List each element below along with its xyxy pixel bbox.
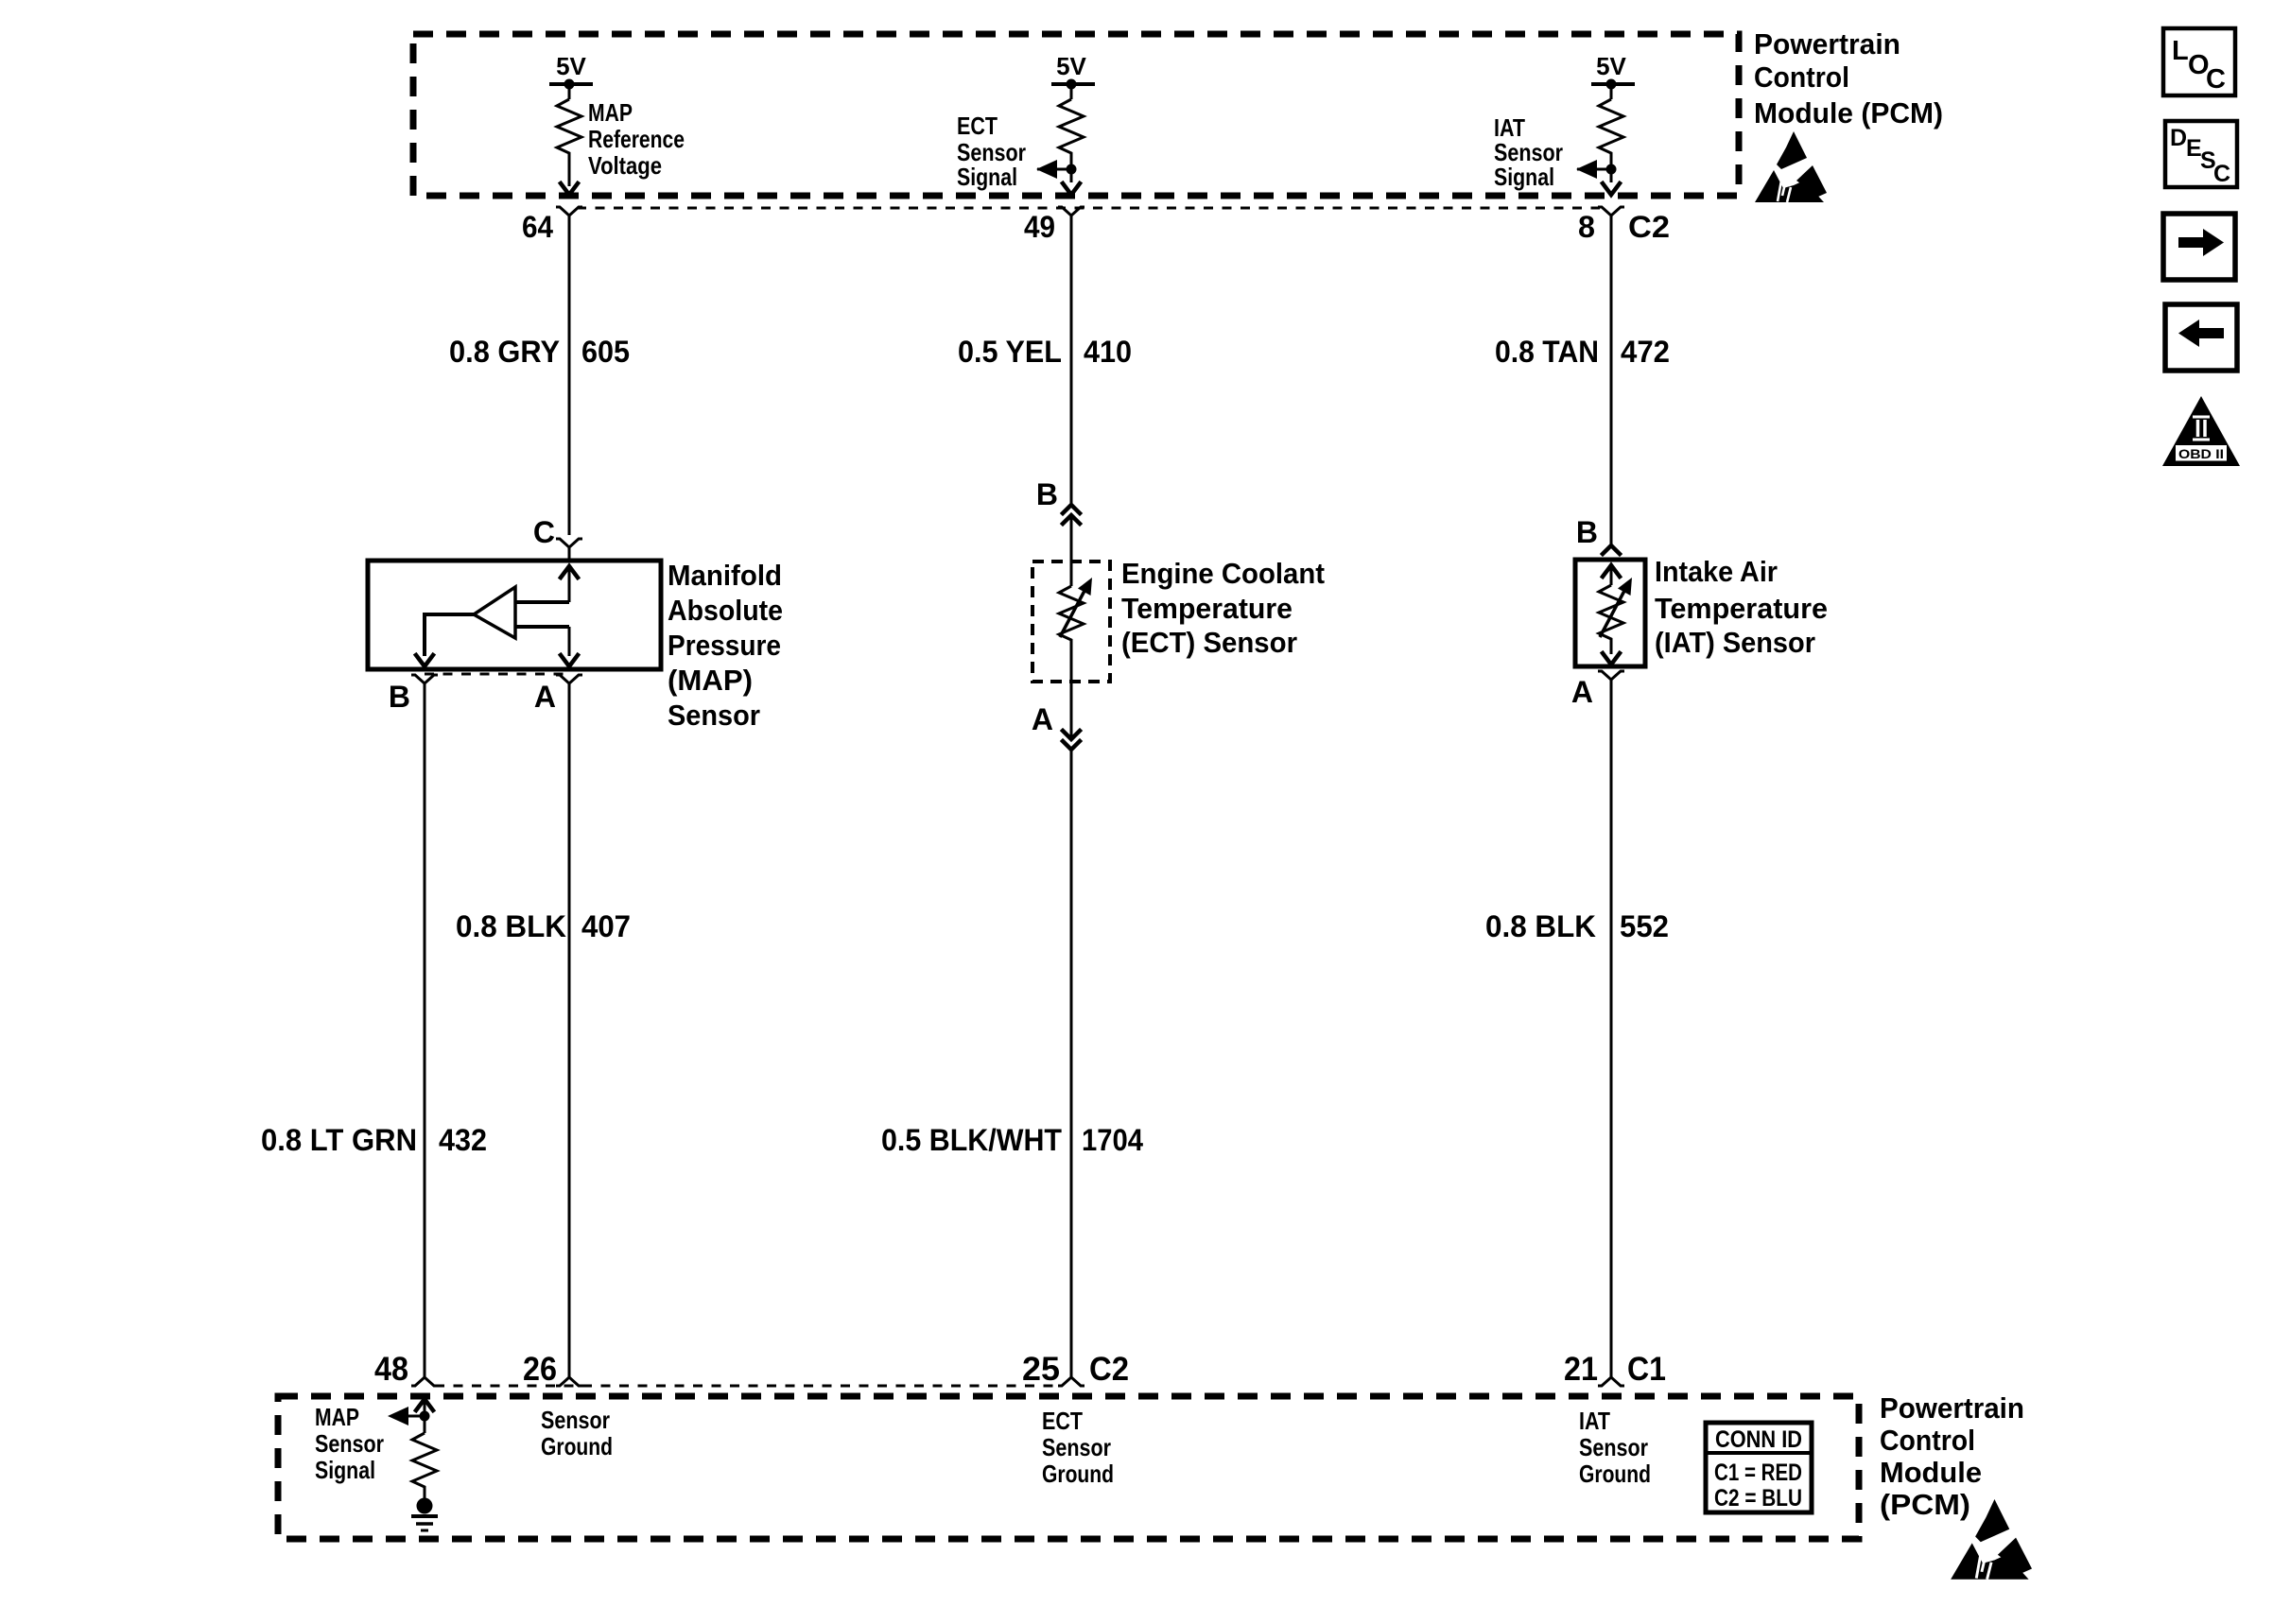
svg-text:Module (PCM): Module (PCM) <box>1754 96 1943 130</box>
svg-text:L: L <box>2172 36 2189 66</box>
svg-text:0.8 TAN: 0.8 TAN <box>1495 335 1599 369</box>
svg-text:Control: Control <box>1880 1424 1975 1457</box>
arrow up from node to pin 48 <box>416 1399 433 1410</box>
ground <box>411 1498 438 1531</box>
svg-text:407: 407 <box>581 909 631 943</box>
svg-text:Sensor: Sensor <box>1042 1433 1111 1461</box>
svg-text:OBD II: OBD II <box>2178 446 2224 461</box>
MAP pin C connector <box>556 539 582 547</box>
ESD symbol top <box>1755 131 1827 202</box>
svg-text:CONN ID: CONN ID <box>1715 1426 1802 1453</box>
svg-text:64: 64 <box>522 210 553 244</box>
node ECT signal <box>1067 164 1077 175</box>
resistor ECT pull-up <box>1059 99 1084 182</box>
svg-text:Sensor: Sensor <box>1579 1433 1648 1461</box>
svg-text:Sensor: Sensor <box>315 1429 384 1458</box>
svg-text:Module: Module <box>1880 1456 1982 1489</box>
svg-text:5V: 5V <box>556 52 586 80</box>
svg-text:B: B <box>389 680 410 714</box>
svg-text:410: 410 <box>1084 335 1132 369</box>
svg-text:Powertrain: Powertrain <box>1880 1391 2024 1425</box>
arrow down to B <box>416 655 433 666</box>
svg-text:(MAP): (MAP) <box>668 664 753 697</box>
resistor MAP internal <box>412 1433 437 1499</box>
pin 26 connector <box>556 1377 582 1386</box>
ECT sensor dashed box <box>1032 561 1110 682</box>
IAT pin B connector <box>1603 545 1620 554</box>
DESC icon <box>2165 121 2237 187</box>
svg-text:B: B <box>1036 477 1058 511</box>
left arrow icon <box>2165 304 2237 371</box>
svg-text:MAP: MAP <box>588 98 633 127</box>
ESD symbol bottom <box>1951 1499 2032 1580</box>
svg-text:Pressure: Pressure <box>668 629 781 662</box>
svg-text:C: C <box>533 515 555 549</box>
ECT pin A connector <box>1070 682 1073 739</box>
IAT sensor box <box>1575 560 1645 666</box>
svg-text:Reference: Reference <box>588 125 685 153</box>
wire 552 BLK <box>1610 691 1613 1378</box>
CONN ID table <box>1706 1423 1812 1512</box>
svg-text:Intake Air: Intake Air <box>1655 555 1778 588</box>
svg-text:26: 26 <box>523 1351 557 1388</box>
svg-text:D: D <box>2170 125 2187 151</box>
IAT sensor name <box>1655 555 1828 659</box>
wire 407 BLK <box>568 695 571 1378</box>
ECT Sensor Ground label <box>1042 1407 1114 1488</box>
wire 410 YEL <box>1070 216 1073 504</box>
IAT sensor signal arrow <box>1577 168 1611 171</box>
svg-text:C: C <box>2213 161 2230 187</box>
arrow up inside IAT box <box>1603 565 1620 577</box>
svg-text:472: 472 <box>1621 335 1670 369</box>
wire op-amp output <box>425 614 474 656</box>
pin 49 connector <box>1058 207 1084 216</box>
svg-text:C1: C1 <box>1627 1351 1666 1388</box>
OBD II icon <box>2162 396 2240 466</box>
svg-text:Signal: Signal <box>1494 163 1554 191</box>
right arrow icon <box>2163 214 2235 280</box>
arrow down to box edge <box>561 183 578 195</box>
Sensor Ground label <box>541 1406 613 1460</box>
resistor MAP Reference Voltage <box>557 99 581 186</box>
svg-text:432: 432 <box>439 1123 487 1157</box>
MAP Sensor Signal label <box>315 1403 384 1484</box>
MAP Reference Voltage label <box>588 98 685 180</box>
svg-text:0.8 BLK: 0.8 BLK <box>456 909 566 943</box>
op-amp U MAP <box>474 587 515 638</box>
svg-text:MAP: MAP <box>315 1403 359 1431</box>
IAT Sensor Ground label <box>1579 1407 1651 1488</box>
svg-text:Temperature: Temperature <box>1121 592 1293 625</box>
svg-text:Sensor: Sensor <box>668 699 760 732</box>
pin 64 connector <box>556 207 582 216</box>
wire op-amp inputs <box>515 600 569 604</box>
svg-text:5V: 5V <box>1056 52 1086 80</box>
ECT pin B connector <box>1063 505 1080 513</box>
svg-text:ECT: ECT <box>1042 1407 1083 1435</box>
ECT sensor name <box>1121 557 1325 659</box>
svg-text:0.8 LT GRN: 0.8 LT GRN <box>261 1123 417 1157</box>
svg-text:Sensor: Sensor <box>541 1406 610 1434</box>
svg-text:5V: 5V <box>1596 52 1626 80</box>
node MAP signal <box>420 1411 430 1422</box>
svg-text:0.5 BLK/WHT: 0.5 BLK/WHT <box>881 1123 1062 1157</box>
MAP pin B connector <box>411 675 438 683</box>
svg-text:Manifold: Manifold <box>668 559 782 592</box>
svg-text:Voltage: Voltage <box>588 151 662 180</box>
5V supply ECT <box>1051 52 1095 99</box>
svg-text:(ECT) Sensor: (ECT) Sensor <box>1121 626 1297 659</box>
svg-text:ECT: ECT <box>957 112 998 140</box>
PCM top label text <box>1754 27 1943 130</box>
5V supply IAT <box>1591 52 1635 99</box>
pin 8 connector <box>1598 207 1624 216</box>
svg-text:605: 605 <box>581 335 630 369</box>
IAT Sensor Signal label <box>1494 113 1563 191</box>
svg-text:Absolute: Absolute <box>668 594 783 627</box>
svg-text:0.8 BLK: 0.8 BLK <box>1485 909 1596 943</box>
svg-text:C1 = RED: C1 = RED <box>1714 1460 1802 1486</box>
pin 48 connector <box>411 1377 438 1386</box>
svg-text:A: A <box>534 680 556 714</box>
svg-text:49: 49 <box>1024 210 1055 244</box>
svg-text:1704: 1704 <box>1082 1123 1143 1157</box>
svg-text:Control: Control <box>1754 60 1849 94</box>
pin 25 connector <box>1058 1377 1084 1386</box>
svg-text:Temperature: Temperature <box>1655 592 1828 625</box>
arrow down to box edge <box>1603 183 1620 195</box>
MAP sensor signal arrow <box>408 1415 425 1418</box>
svg-text:48: 48 <box>374 1351 408 1388</box>
wire 1704 BLK/WHT <box>1070 750 1073 1378</box>
ECT Sensor Signal label <box>957 112 1026 191</box>
svg-text:(IAT) Sensor: (IAT) Sensor <box>1655 626 1815 659</box>
svg-text:Ground: Ground <box>1042 1460 1114 1488</box>
svg-text:Engine Coolant: Engine Coolant <box>1121 557 1325 590</box>
svg-text:C2: C2 <box>1628 210 1670 244</box>
LOC icon <box>2163 28 2235 95</box>
PCM bottom label text <box>1880 1391 2024 1521</box>
node IAT signal <box>1606 164 1617 175</box>
svg-text:A: A <box>1032 702 1053 736</box>
svg-text:A: A <box>1571 675 1593 709</box>
thermistor IAT <box>1610 566 1613 585</box>
svg-text:Ground: Ground <box>1579 1460 1651 1488</box>
wire 432 LT GRN <box>424 695 426 1378</box>
5V supply MAP <box>549 52 593 99</box>
svg-text:IAT: IAT <box>1579 1407 1610 1435</box>
arrow up inside MAP box <box>561 566 578 578</box>
top connector face thin dashed line <box>577 207 1600 210</box>
wire 472 TAN <box>1610 216 1613 544</box>
wire 605 GRY <box>568 216 571 535</box>
MAP connector face dashed line <box>425 673 569 676</box>
bottom connector face thin dashed line <box>435 1385 1061 1388</box>
svg-text:25: 25 <box>1022 1351 1060 1388</box>
MAP pin A connector <box>556 675 582 683</box>
svg-text:0.5 YEL: 0.5 YEL <box>958 335 1062 369</box>
svg-text:8: 8 <box>1578 210 1595 244</box>
svg-text:(PCM): (PCM) <box>1880 1488 1970 1521</box>
svg-text:0.8 GRY: 0.8 GRY <box>449 335 560 369</box>
PCM bottom dashed box <box>278 1396 1859 1539</box>
thermistor ECT <box>1070 561 1073 586</box>
svg-text:552: 552 <box>1620 909 1669 943</box>
wire to A <box>568 627 571 656</box>
IAT pin A connector <box>1598 671 1624 680</box>
MAP sensor box <box>368 561 661 669</box>
ECT sensor signal arrow <box>1037 168 1071 171</box>
svg-text:C2 = BLU: C2 = BLU <box>1714 1485 1802 1512</box>
svg-text:B: B <box>1576 515 1598 549</box>
svg-text:C2: C2 <box>1089 1351 1129 1388</box>
pin 21 connector <box>1598 1377 1624 1386</box>
svg-text:21: 21 <box>1564 1351 1598 1388</box>
resistor IAT pull-up <box>1599 99 1623 182</box>
arrow down to A <box>561 655 578 666</box>
MAP sensor name <box>668 559 783 732</box>
PCM top dashed box <box>413 34 1739 196</box>
svg-text:Signal: Signal <box>315 1456 375 1484</box>
svg-text:Signal: Signal <box>957 163 1017 191</box>
svg-text:Powertrain: Powertrain <box>1754 27 1900 60</box>
svg-text:C: C <box>2206 64 2226 95</box>
arrow down to box edge <box>1063 183 1080 195</box>
svg-text:Ground: Ground <box>541 1432 613 1460</box>
